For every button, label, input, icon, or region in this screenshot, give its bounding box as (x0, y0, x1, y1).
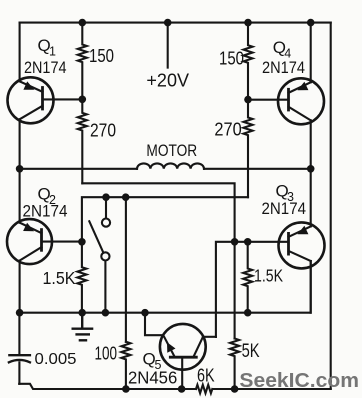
node: bottom rail / 100 ohm junction (122, 385, 130, 393)
node: right rail / motor line junction (307, 165, 315, 173)
wire: Q3 collector to ground rail corner (310, 261, 312, 313)
node: Q3 base / right 1.5K junction (244, 238, 252, 246)
resistor 150 (right), body (244, 23, 253, 100)
node: ground rail / 1.5K right junction (244, 309, 252, 317)
wire: Q2 emitter to motor junction (19, 169, 21, 223)
svg-text:6K: 6K (197, 365, 215, 386)
svg-text:1.5K: 1.5K (43, 268, 76, 288)
node: ground rail / left rail junction (16, 309, 24, 317)
node: junction of left 150/270 and Q1 base (79, 96, 87, 104)
svg-text:2N174: 2N174 (262, 58, 305, 77)
svg-text:2N456: 2N456 (128, 368, 177, 388)
svg-text:2N174: 2N174 (24, 58, 67, 77)
capacitor C1 0.005: top lead (18, 313, 20, 354)
svg-text:270: 270 (214, 120, 241, 140)
svg-text:0.005: 0.005 (35, 351, 77, 368)
node: ground rail / Q5 emitter junction (141, 309, 149, 317)
resistor 150 (left), body (78, 23, 87, 100)
resistor 1.5K (right), body (243, 242, 252, 313)
node: left rail / motor line junction (16, 165, 24, 173)
svg-text:SeekIC.com: SeekIC.com (239, 370, 359, 392)
resistor 1.5K (left), body (77, 242, 86, 313)
wire: Q4 emitter to top rail (310, 23, 312, 83)
node: ground rail / switch lower stub junction (102, 309, 110, 317)
resistor 5K, body (230, 339, 239, 390)
wire: right 270 bottom, cross-over feed to left side (switch line) (82, 197, 248, 242)
node: switch upper contact tap on cross feed line (102, 193, 110, 201)
switch S1: upper contact circle (102, 219, 110, 227)
transistor Q5 (2N456) (160, 324, 216, 389)
resistor 270 (right), body (244, 100, 253, 198)
transistor Q1 (2N174) (8, 77, 83, 123)
wire: left 270 bottom, cross-over feed to right side node B (82, 183, 234, 242)
resistor 100, body (121, 342, 130, 389)
svg-text:2N174: 2N174 (262, 199, 307, 218)
svg-text:MOTOR: MOTOR (146, 142, 197, 160)
node: ground rail / 1.5K left junction (78, 309, 86, 317)
capacitor C1: bottom lead (18, 362, 20, 384)
wire: bottom rail left segment with jog (19, 384, 196, 389)
wire: Q4 collector down to motor line and Q3 emitter (310, 120, 312, 226)
capacitor C1: flat plate (9, 354, 30, 356)
wire: left rail top segment (Q1 emitter to top rail) (19, 23, 21, 82)
node: top rail / right 150 junction (244, 19, 252, 27)
resistor 6K, body (horizontal) (196, 385, 212, 393)
svg-text:5K: 5K (242, 341, 260, 362)
svg-text:+20V: +20V (146, 71, 189, 91)
svg-text:270: 270 (90, 121, 116, 141)
resistor 270 (left), body (78, 99, 87, 183)
inductor MOTOR winding (137, 163, 204, 168)
wire: top +20V supply rail (20, 22, 331, 24)
switch S1: blade (open) (89, 221, 103, 252)
svg-text:1: 1 (49, 45, 56, 59)
wire: motor line right segment (204, 168, 311, 170)
wire: Q5 collector riser to Q3 base line (216, 242, 235, 337)
node: top rail / +20V stub junction (164, 19, 172, 27)
wire: motor line left segment (20, 168, 137, 170)
wire: ground rail (horizontal) (20, 261, 311, 313)
switch S1: lower contact circle (101, 252, 109, 260)
svg-text:1.5K: 1.5K (254, 266, 283, 286)
node: Q2 base / 1.5K junction (78, 238, 86, 246)
node: junction of right 150/270 and Q4 base (244, 96, 252, 104)
node: top rail / left 150 junction (79, 19, 87, 27)
wire: 100 ohm feed from cross line through ground rail (125, 197, 127, 342)
wire: node B down through ground rail to 5K (234, 242, 236, 339)
node: node B (Q3 base line, 5K top) (231, 238, 239, 246)
wire: bottom rail right of 6K (213, 388, 331, 390)
capacitor C1: curved plate (9, 360, 30, 362)
switch S1: lower stub to ground rail (104, 261, 106, 313)
svg-text:2N174: 2N174 (23, 202, 68, 221)
node: 100 ohm feed tap on cross feed line (122, 193, 130, 201)
svg-text:150: 150 (89, 46, 114, 66)
wire: outer right border wire (330, 23, 332, 389)
wire: +20V stub (167, 23, 169, 68)
transistor Q2 (2N174) (7, 219, 82, 264)
wire: Q5 emitter wire from ground rail (145, 313, 163, 336)
wire: Q2 collector down to ground rail (19, 261, 21, 313)
switch S1: stub to upper contact (105, 197, 107, 218)
transistor Q4 (2N174) (248, 78, 324, 124)
wire: Q1 collector to motor-line junction (19, 119, 21, 169)
svg-text:150: 150 (219, 49, 244, 69)
node: top rail / Q4 emitter junction (307, 19, 315, 27)
node: bottom rail / Q5 base junction (178, 385, 186, 393)
svg-text:100: 100 (95, 344, 118, 364)
transistor Q3 (2N174) (235, 222, 325, 268)
ground symbol (73, 313, 92, 341)
node: bottom rail / 5K junction (231, 385, 239, 393)
